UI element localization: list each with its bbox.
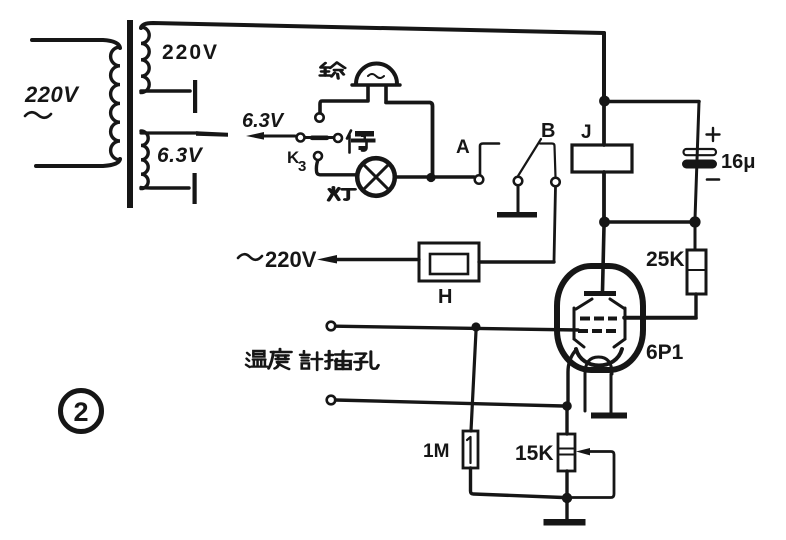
svg-text:2: 2 xyxy=(73,397,88,427)
svg-text:15K: 15K xyxy=(515,442,554,465)
svg-text:220V: 220V xyxy=(24,82,80,107)
svg-text:25K: 25K xyxy=(646,248,685,271)
svg-text:1M: 1M xyxy=(423,441,449,462)
svg-text:H: H xyxy=(438,286,452,308)
svg-text:6P1: 6P1 xyxy=(646,341,684,364)
svg-text:A: A xyxy=(456,137,470,158)
svg-text:16μ: 16μ xyxy=(721,151,755,173)
svg-text:3: 3 xyxy=(298,158,306,175)
svg-text:6.3V: 6.3V xyxy=(242,110,285,132)
svg-text:J: J xyxy=(581,122,592,143)
svg-text:6.3V: 6.3V xyxy=(157,144,204,167)
svg-text:B: B xyxy=(541,120,555,142)
svg-text:220V: 220V xyxy=(265,247,317,272)
svg-text:220V: 220V xyxy=(162,41,219,64)
